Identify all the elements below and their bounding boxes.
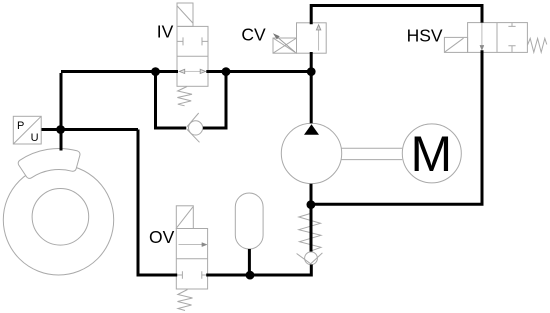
svg-text:CV: CV bbox=[241, 25, 266, 45]
svg-text:OV: OV bbox=[149, 227, 175, 247]
svg-text:HSV: HSV bbox=[407, 26, 443, 46]
svg-text:M: M bbox=[410, 126, 452, 182]
svg-text:IV: IV bbox=[157, 22, 174, 42]
svg-text:P: P bbox=[17, 120, 24, 132]
svg-text:U: U bbox=[31, 132, 39, 144]
